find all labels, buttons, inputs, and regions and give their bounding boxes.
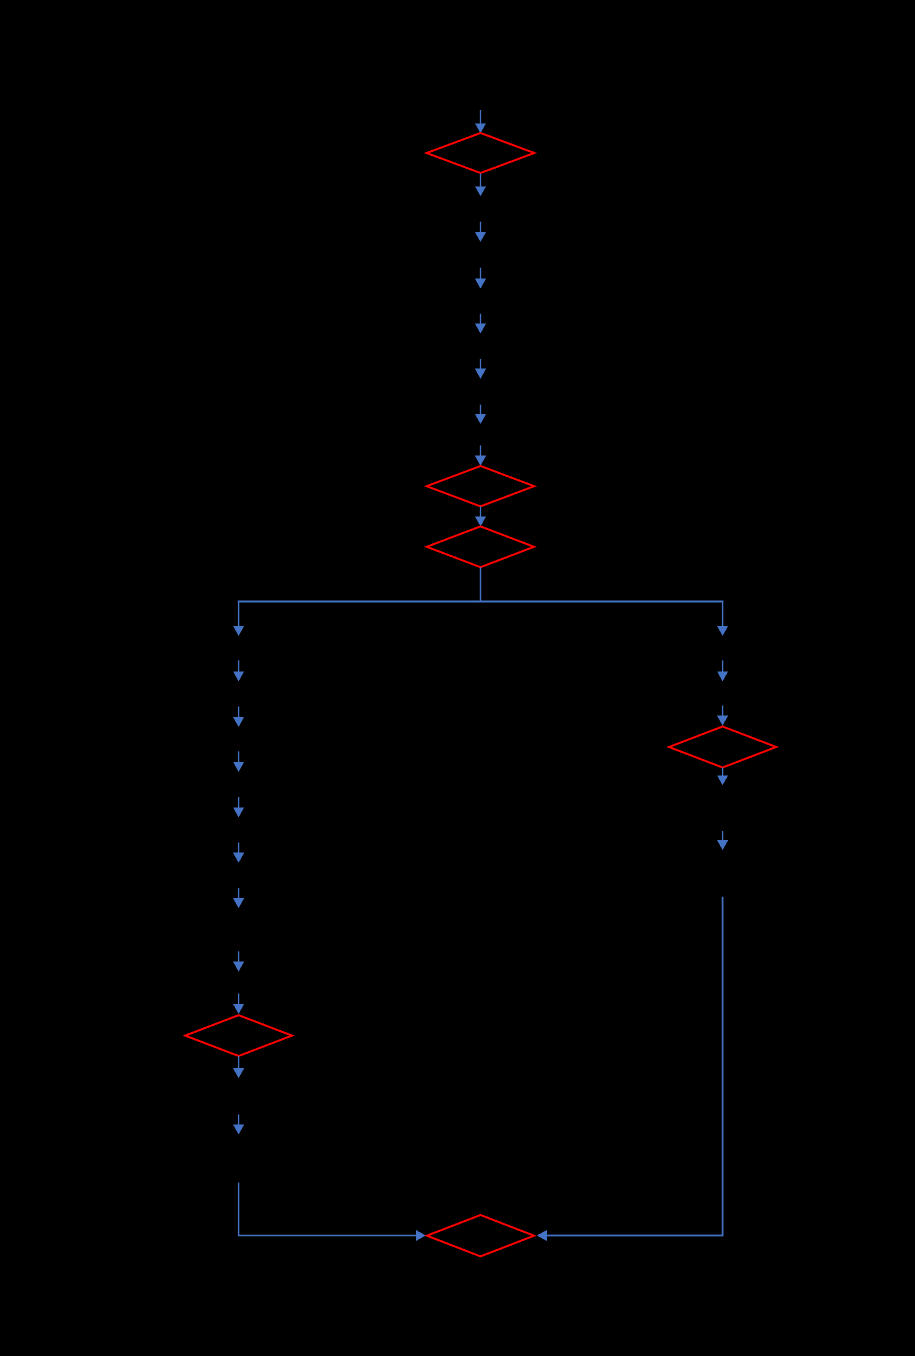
arrow A6 bbox=[475, 359, 486, 379]
wire L12 corner to decision D6 bbox=[239, 1183, 426, 1242]
arrow A2 bbox=[475, 174, 486, 197]
arrow R3 into decision D5 bbox=[717, 706, 728, 726]
arrow L10 bbox=[233, 1056, 244, 1078]
decision D3 bbox=[427, 526, 534, 567]
arrow L11 bbox=[233, 1114, 244, 1134]
decision D1 bbox=[427, 133, 535, 173]
arrow L3 bbox=[233, 707, 244, 728]
wire R6 corner to decision D6 bbox=[537, 897, 723, 1241]
arrow A7 bbox=[475, 405, 486, 424]
arrow L8 bbox=[233, 951, 244, 971]
arrow L5 bbox=[233, 797, 244, 817]
decision D5 bbox=[669, 727, 776, 768]
arrow R1 right branch down bbox=[717, 601, 728, 636]
arrow A8 into decision D2 bbox=[475, 445, 486, 465]
arrow R4 bbox=[717, 768, 728, 786]
arrow L2 bbox=[233, 660, 244, 681]
arrow R5 bbox=[717, 831, 728, 850]
arrow A4 bbox=[475, 268, 486, 289]
arrow L6 bbox=[233, 843, 244, 863]
arrow L9 into decision D4 bbox=[233, 994, 244, 1015]
arrow A5 bbox=[475, 314, 486, 334]
decision D6 bbox=[427, 1215, 534, 1256]
arrow A3 bbox=[475, 222, 486, 242]
decision D4 bbox=[185, 1015, 292, 1056]
arrow A9 into decision D3 bbox=[475, 506, 486, 526]
decision D2 bbox=[427, 466, 534, 506]
wire branch horizontal bbox=[238, 601, 724, 603]
arrow A1 into decision D1 bbox=[475, 110, 486, 133]
arrow L1 left branch down bbox=[233, 601, 244, 636]
wire D3 to branch bbox=[480, 567, 482, 601]
arrow L4 bbox=[233, 751, 244, 772]
arrow R2 bbox=[717, 660, 728, 681]
arrow L7 bbox=[233, 888, 244, 908]
